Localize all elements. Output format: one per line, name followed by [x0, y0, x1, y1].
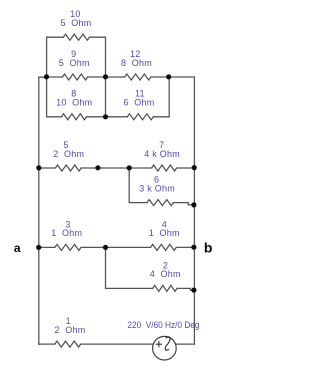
svg-text:1 Ohm: 1 Ohm: [149, 228, 180, 238]
wire R11 row left lead: [106, 116, 128, 118]
resistor R12 zigzag: [125, 74, 151, 80]
wire source to right rail: [175, 343, 194, 345]
resistor R7 zigzag: [152, 165, 177, 171]
svg-text:5 Ohm: 5 Ohm: [61, 18, 92, 28]
wire R5 row left lead: [39, 167, 56, 169]
wire R5 to R7 middle: [81, 167, 151, 169]
svg-text:5 Ohm: 5 Ohm: [59, 58, 90, 68]
junction J2: [103, 74, 108, 79]
wire R9 row right lead: [88, 76, 106, 78]
junction rail-R7 right: [192, 165, 197, 170]
wire node to right rail top: [169, 77, 195, 344]
resistor R9 zigzag: [62, 74, 87, 80]
junction J4: [166, 74, 171, 79]
resistor R1 zigzag: [55, 341, 81, 347]
resistor R2 zigzag: [153, 285, 177, 291]
resistor R5 zigzag: [55, 165, 81, 171]
AC source V1 circle: [153, 336, 177, 360]
wire R8 row right lead: [87, 116, 106, 118]
AC source sine squiggle: [165, 337, 170, 350]
svg-text:3 k Ohm: 3 k Ohm: [139, 183, 175, 193]
wire R9 row left lead: [47, 76, 63, 78]
svg-text:220 V/60 Hz/0 Deg: 220 V/60 Hz/0 Deg: [127, 320, 199, 330]
junction R2-rail: [191, 288, 196, 293]
svg-text:6 Ohm: 6 Ohm: [124, 98, 155, 108]
svg-text:a: a: [14, 241, 21, 255]
resistor R3 zigzag: [55, 244, 81, 250]
wire top loop left vertical: [47, 37, 64, 77]
wire R7 right lead: [177, 167, 195, 169]
junction R6 branch: [127, 165, 132, 170]
resistor R11 zigzag: [127, 114, 153, 120]
wire R4 right lead: [176, 246, 194, 248]
junction R5 right: [95, 165, 100, 170]
svg-text:8 Ohm: 8 Ohm: [121, 58, 152, 68]
wire R12 row right lead: [151, 76, 169, 78]
junction R6-rail: [191, 202, 196, 207]
wire center vertical J2-J3: [105, 77, 107, 117]
wire R6 right jog to rail: [173, 203, 193, 205]
wire R2 right jog to rail: [177, 288, 193, 290]
wire R2 branch vertical and lead: [106, 247, 153, 288]
wire left rail with jog from node J1: [39, 77, 47, 344]
wire R6 branch vertical and lead: [129, 168, 147, 203]
wire bottom row left lead: [39, 343, 55, 345]
svg-text:2 Ohm: 2 Ohm: [54, 325, 85, 335]
wire top loop right vertical: [90, 37, 106, 77]
wire a-b row left lead: [39, 246, 55, 248]
wire R3 to R4 middle: [81, 246, 151, 248]
svg-text:2 Ohm: 2 Ohm: [53, 149, 84, 159]
AC source plus sign: [156, 341, 162, 347]
wire R12 row left lead: [106, 76, 125, 78]
svg-text:1 Ohm: 1 Ohm: [51, 228, 82, 238]
junction rail-R5 left: [36, 165, 41, 170]
node a junction: [36, 245, 41, 250]
svg-text:10 Ohm: 10 Ohm: [56, 98, 92, 108]
wire R1 to source: [81, 343, 154, 345]
resistor R6 zigzag: [147, 200, 173, 206]
svg-text:4 k Ohm: 4 k Ohm: [144, 149, 180, 159]
wire R11 row right lead up to node: [153, 77, 169, 117]
junction J3: [103, 114, 108, 119]
svg-text:b: b: [204, 240, 213, 256]
junction R2 branch: [103, 245, 108, 250]
node b junction: [191, 245, 196, 250]
junction J1: [44, 74, 49, 79]
resistor R10 zigzag: [63, 34, 89, 40]
svg-text:4 Ohm: 4 Ohm: [150, 269, 181, 279]
wire R8 row left vertical and lead: [47, 77, 62, 117]
resistor R4 zigzag: [151, 244, 177, 250]
resistor R8 zigzag: [62, 114, 87, 120]
